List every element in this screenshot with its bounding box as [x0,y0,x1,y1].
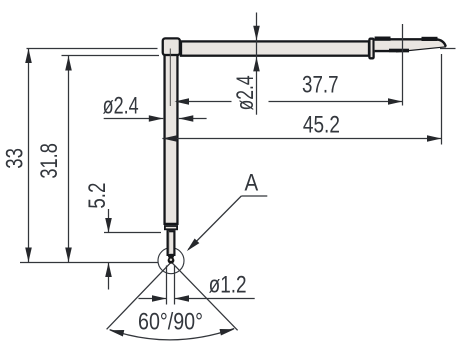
tip body top outline [375,39,446,46]
arm dia arrow down [253,26,260,41]
dim 37.7 extension line [402,24,404,106]
tip top dark band 1 [375,37,391,41]
ball dia ø1.2 right extension line [174,266,176,305]
dim 5.2 arrow up [105,263,112,278]
step band on stem [165,226,177,229]
svg-text:ø2.4: ø2.4 [103,93,139,120]
ball dia dim line right segment [175,298,255,300]
stem highlight line [169,49,171,107]
dim 31.8 top extension line [62,55,160,57]
dim 33 arrow down [25,248,32,263]
dim 37.7 line left segment [176,101,232,103]
arm dia arrow up [253,57,260,72]
tip body bottom outline [375,50,409,52]
ball dia arrow right-pointing [152,295,167,302]
label A arrowhead [184,238,199,253]
ball centre extension line [20,262,158,264]
dim 5.2 upper line [108,209,110,233]
dim 37.7 arrow right [388,98,403,105]
ball highlight [170,258,173,261]
stem dia right tail [179,118,207,120]
dim 45.2 arrow left [162,135,177,142]
svg-text:60°/90°: 60°/90° [138,308,203,335]
tip bottom dark band [389,49,409,53]
dim 5.2 lower line [108,263,110,290]
angle arc arrow right [220,326,236,335]
collar at arm right end [369,39,373,59]
dim 31.8 line [68,56,70,262]
svg-text:ø1.2: ø1.2 [209,271,247,298]
elbow block [163,38,180,55]
svg-text:A: A [244,169,258,196]
tip cut diagonal line [396,47,446,52]
narrow stem highlight line [168,231,170,253]
taper to ball [167,255,175,259]
contact ball [168,257,175,264]
dim 5.2 step extension line [104,232,161,234]
dim 45.2 arrow right [427,135,442,142]
tip axis extension line [440,48,456,50]
label A leader line [188,196,241,250]
angle arc [110,329,235,340]
dim 33 line [28,49,30,263]
stem dia underline leader [104,118,164,120]
tip top dark band 2 [422,37,438,41]
svg-text:5.2: 5.2 [84,183,111,209]
stem dia arrow left-pointing [179,115,194,122]
contact angle line right (60/90 cone) [172,262,238,330]
dim 33 top extension line [27,48,158,50]
angle arc arrow left [109,327,125,336]
dim 33 arrow up [25,49,32,64]
dim 45.2 line [162,138,441,140]
ball dia arrow left-pointing [175,295,190,302]
svg-text:31.8: 31.8 [36,143,63,179]
contact angle line left (60/90 cone) [107,262,171,329]
stem dia arrow right-pointing [149,115,164,122]
label A underline [241,195,267,197]
dim 37.7 arrow left [175,98,190,105]
vertical stem [165,55,178,224]
dim 31.8 arrow up [65,56,72,71]
svg-text:ø2.4: ø2.4 [232,75,259,110]
dim 37.7 line right segment [269,101,403,103]
narrow stem tip [168,231,175,255]
tip body fill [375,38,447,52]
svg-text:45.2: 45.2 [303,112,340,139]
dim 5.2 arrow down [105,218,112,233]
ball dia dim line left segment [139,298,167,300]
arm dia ø2.4 vertical leader line [256,13,258,115]
svg-text:37.7: 37.7 [302,71,339,98]
horizontal arm of stylus [181,41,369,55]
ball dia ø1.2 left extension line [166,266,168,305]
dim 45.2 extension line [441,54,443,145]
dim 31.8 arrow down [65,248,72,263]
detail circle around contact point [158,248,184,274]
svg-text:33: 33 [1,148,28,169]
